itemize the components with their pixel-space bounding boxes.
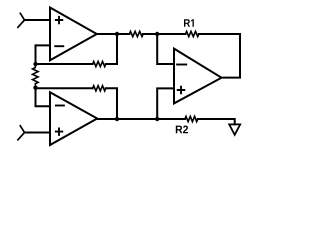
gain resistor between A1 and A2 inverting inputs xyxy=(33,64,39,88)
wire IN2 to A2 + input xyxy=(25,132,51,134)
input terminal IN2 xyxy=(18,126,25,140)
input terminal IN1 xyxy=(18,13,25,27)
op-amp U3 xyxy=(174,49,222,104)
wire feedback to A1 output xyxy=(106,34,117,64)
wire A2 inverting input xyxy=(36,88,51,106)
label R1 xyxy=(184,19,194,27)
wire node to U3 inverting input xyxy=(157,34,174,64)
op-amp A1 xyxy=(50,8,97,61)
node U3 inverting junction xyxy=(155,32,159,36)
node A1 output junction xyxy=(115,32,119,36)
wire U3 feedback right edge xyxy=(222,34,241,78)
wire A2 feedback rail xyxy=(36,87,93,89)
node gain resistor top xyxy=(33,62,37,66)
resistor R2 xyxy=(185,116,198,121)
wire A1 inverting input xyxy=(36,45,51,64)
resistor A1 output to summing node xyxy=(129,31,143,36)
wire IN1 to A1 + input xyxy=(25,19,51,21)
wire resistor to node xyxy=(143,33,185,35)
node gain resistor bottom xyxy=(33,86,37,90)
wire feedback to A2 output xyxy=(106,88,117,119)
wire A1 feedback rail xyxy=(36,63,93,65)
wire R1 to output xyxy=(199,33,240,35)
wire U3 non-inverting input xyxy=(157,88,174,119)
label R2 xyxy=(176,126,188,134)
resistor A1 feedback xyxy=(93,61,106,66)
resistor A2 feedback xyxy=(93,86,106,91)
node R2 junction xyxy=(155,117,159,121)
wire A2 output rail xyxy=(97,118,185,120)
wire R2 to ground xyxy=(198,119,235,124)
resistor R1 xyxy=(186,31,199,36)
op-amp A2 xyxy=(50,92,97,145)
node A2 output junction xyxy=(115,117,119,121)
ground xyxy=(229,124,240,134)
wire A1 output xyxy=(97,33,129,35)
